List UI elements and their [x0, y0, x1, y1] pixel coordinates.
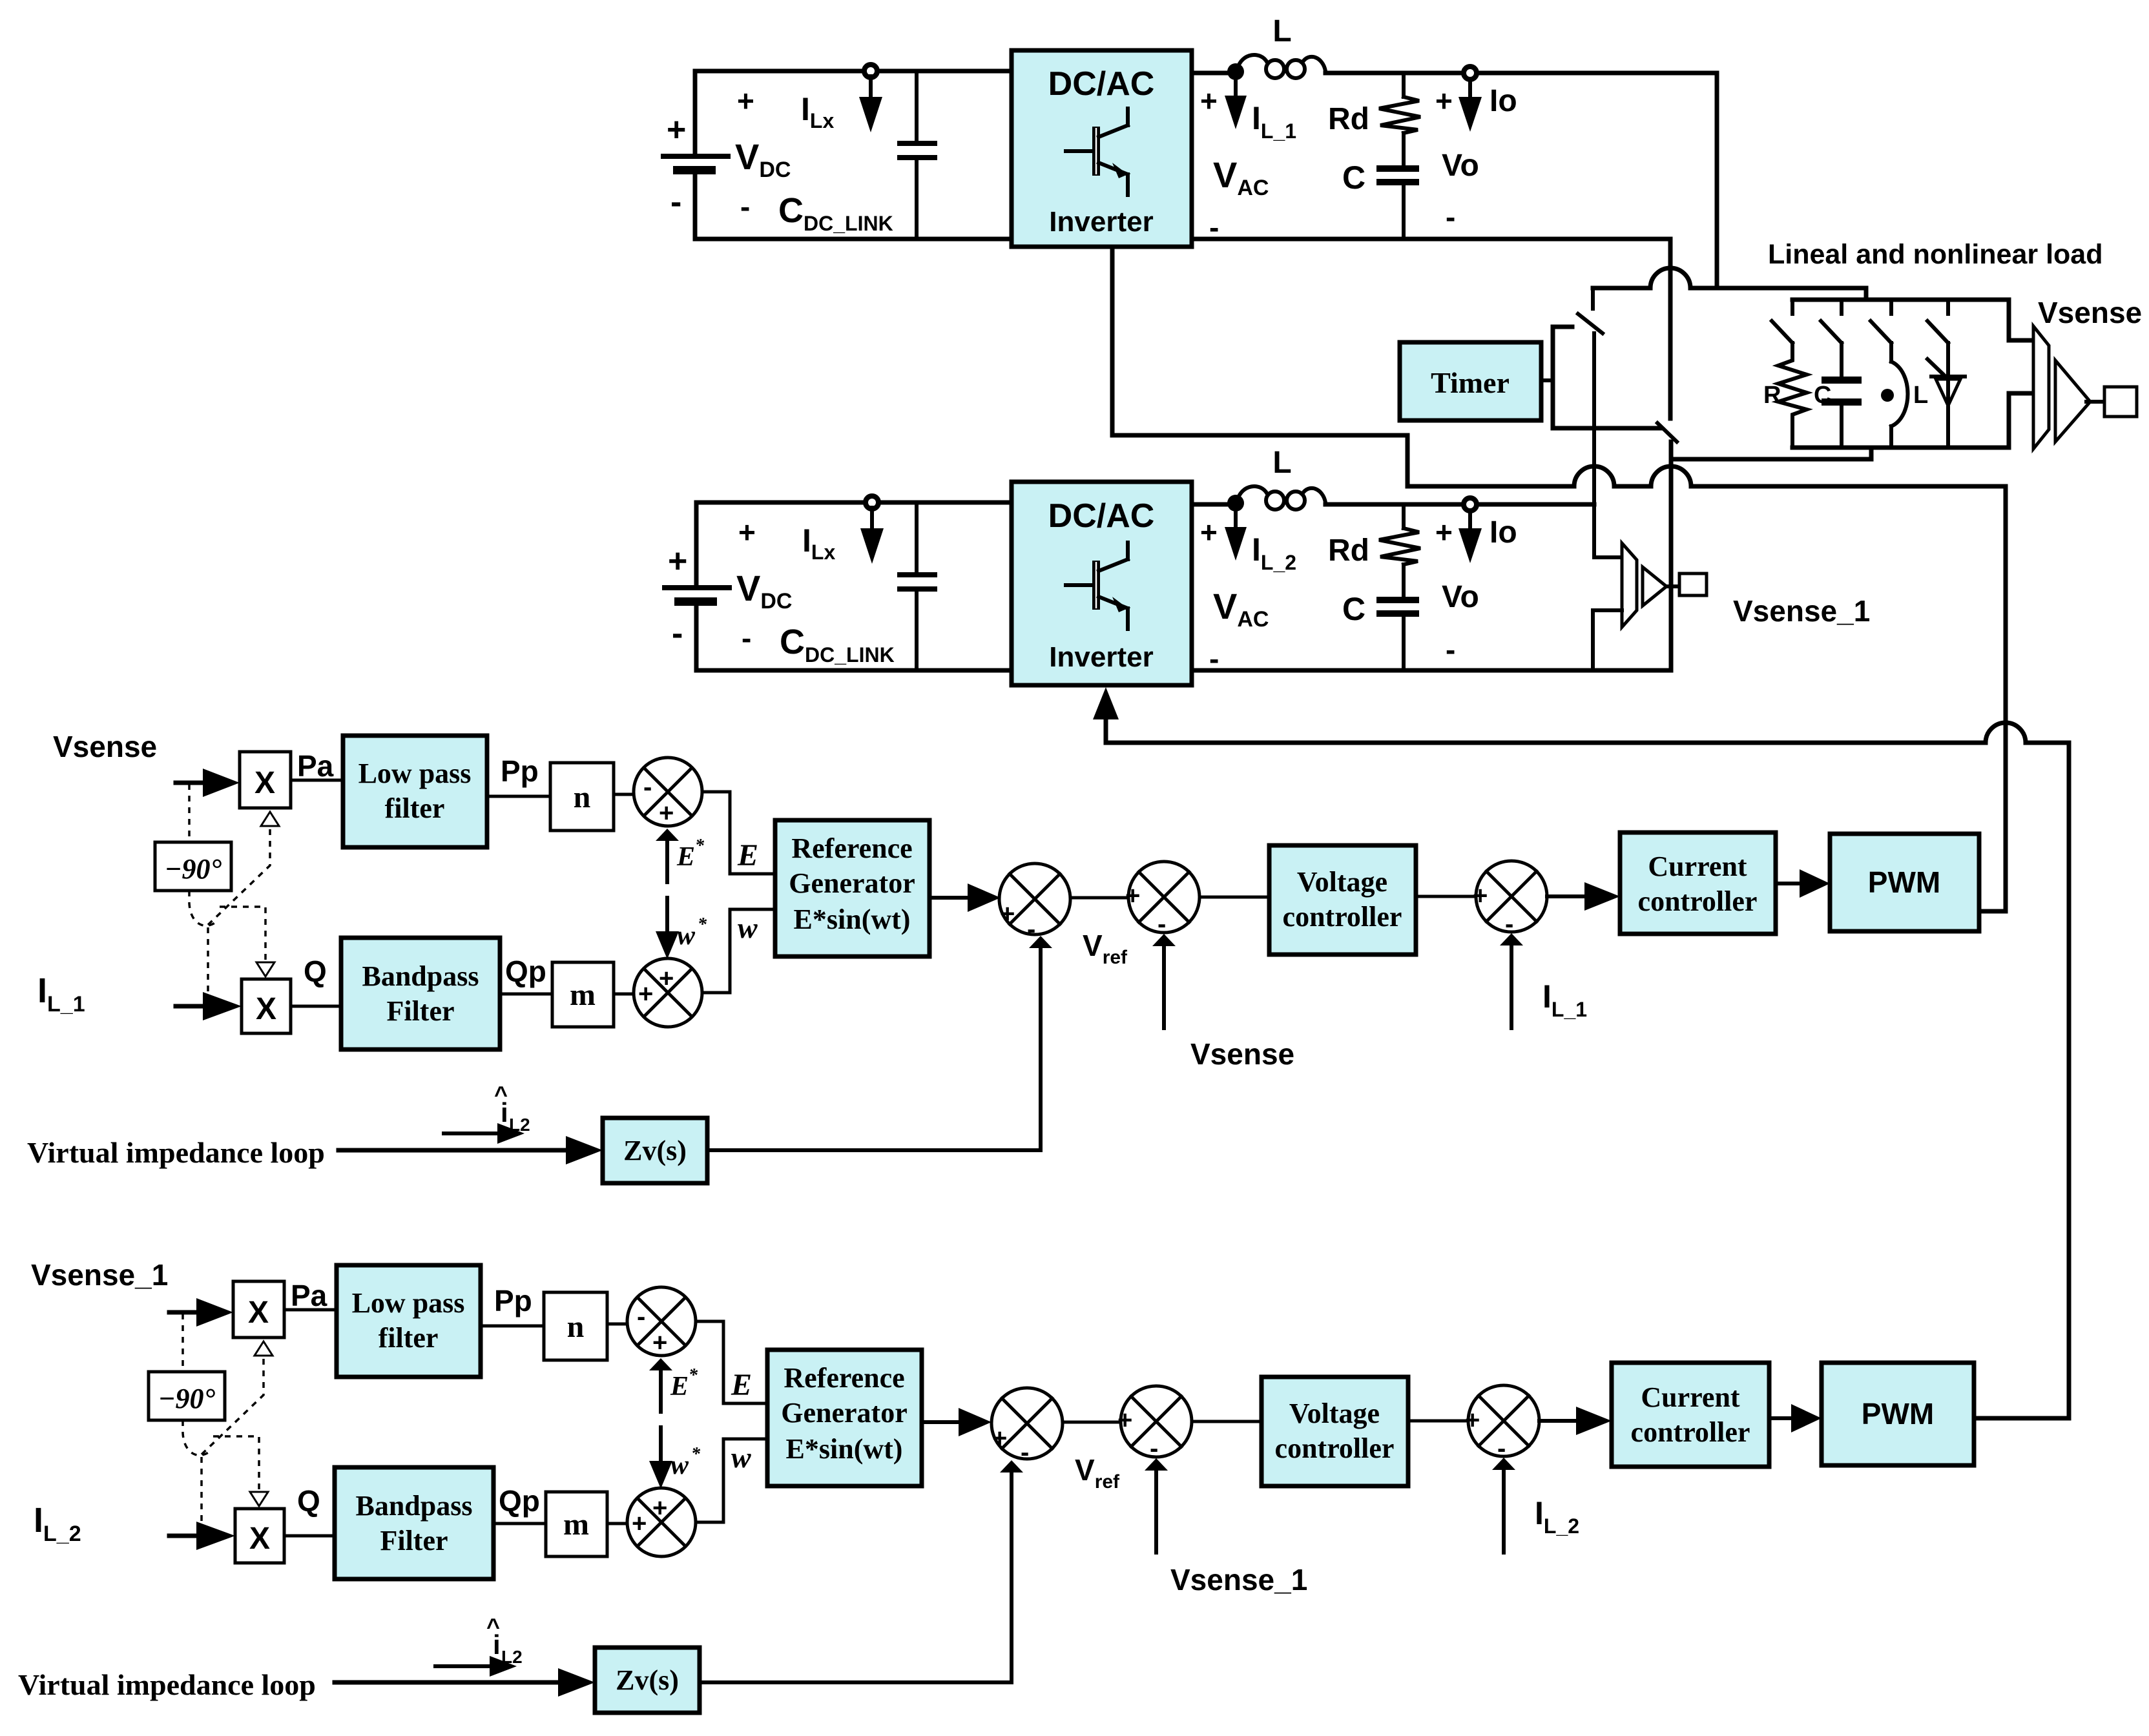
- svg-text:Bandpass: Bandpass: [362, 960, 479, 992]
- svg-text:-: -: [1497, 1434, 1506, 1463]
- terminal Vsense: [2104, 387, 2137, 417]
- wire BPF2 to m2: [493, 1522, 546, 1525]
- wire Zv2 to A2 riser: [700, 1680, 1012, 1684]
- svg-text:Vsense: Vsense: [2038, 296, 2142, 329]
- svg-text:Io: Io: [1490, 515, 1517, 550]
- svg-text:Bandpass: Bandpass: [355, 1490, 472, 1522]
- svg-text:PWM: PWM: [1868, 865, 1940, 899]
- wire left rail battery1: [693, 71, 698, 156]
- svg-text:+: +: [652, 1494, 667, 1522]
- wire load bottom feed: [1671, 448, 1871, 459]
- dashed -90 output curve: [189, 891, 216, 925]
- feedback arrow Vref2 from Zv2: [1010, 1471, 1013, 1682]
- current arrow ILx1: [869, 76, 873, 98]
- svg-text:+: +: [1200, 84, 1218, 118]
- wire probe2 gate stub: [1594, 555, 1622, 559]
- wire PWM2 output: [1974, 1416, 2069, 1421]
- signal arrow IL2 into X2b: [169, 1534, 199, 1538]
- reference arrow w* 2: [659, 1427, 663, 1462]
- svg-text:Vsense: Vsense: [1190, 1037, 1294, 1071]
- gain block n 2: [544, 1292, 607, 1360]
- switch S1 blade: [1578, 314, 1603, 333]
- summing junction E sum1b: [627, 1287, 696, 1357]
- svg-text:−90°: −90°: [165, 853, 222, 885]
- signal arrow Vsense_1 into X1b: [169, 1310, 199, 1315]
- svg-text:-: -: [1158, 910, 1166, 938]
- svg-text:-: -: [1505, 910, 1513, 938]
- wire BPF to m: [500, 993, 552, 996]
- svg-text:-: -: [740, 190, 750, 223]
- wire left rail battery2 lower: [694, 601, 699, 670]
- gain block m: [552, 962, 614, 1027]
- svg-text:Reference: Reference: [784, 1362, 904, 1394]
- wire X1 to LPF: [291, 779, 343, 782]
- small arrow iL2 1: [444, 1131, 499, 1135]
- dashed horizontal to X2: [220, 907, 265, 962]
- wire load top feed: [1593, 268, 1866, 300]
- signal arrow IL1 into X2: [176, 1004, 205, 1009]
- feedback arrow Vref1 from Zv: [1039, 947, 1043, 1150]
- svg-text:DC/AC: DC/AC: [1048, 497, 1155, 535]
- current arrow I_L_1: [1234, 77, 1238, 97]
- damping branch Rd2 C2: [1376, 504, 1420, 670]
- wire A1 to B1: [1070, 896, 1128, 900]
- svg-text:Virtual impedance loop: Virtual impedance loop: [27, 1136, 325, 1169]
- wire LPF2 to n2: [481, 1325, 544, 1328]
- wire m to sum2: [614, 993, 634, 996]
- wire left rail battery1 lower: [693, 169, 698, 239]
- switch S1 stub: [1591, 288, 1595, 309]
- wire sum2b to RG2 (w): [696, 1439, 767, 1522]
- signal arrow RG1 to sumA: [929, 896, 969, 900]
- load branch thyristor switch: [1927, 300, 1948, 343]
- block Zv(s) 1: [603, 1118, 707, 1183]
- voltage probe Vsense_1 body: [1622, 543, 1637, 627]
- svg-text:Pa: Pa: [291, 1279, 327, 1312]
- wire inverter1 bottom rail drop to switch: [1668, 239, 1673, 418]
- svg-text:Pa: Pa: [297, 749, 334, 783]
- thyristor load: [1927, 343, 1965, 448]
- wire top rail inverter1 DC side: [695, 69, 1012, 74]
- terminal Vsense_1: [1679, 573, 1707, 595]
- svg-text:Voltage: Voltage: [1289, 1398, 1380, 1429]
- svg-text:-: -: [670, 183, 681, 221]
- svg-text:-: -: [1446, 633, 1455, 666]
- svg-text:+: +: [1473, 882, 1488, 910]
- signal arrow CC2 to PWM2: [1769, 1416, 1792, 1420]
- wire gate line inverter2 horizontal: [1106, 723, 2069, 743]
- current arrow Io2: [1468, 510, 1472, 530]
- block Reference Generator 2: [767, 1350, 922, 1486]
- svg-text:Vsense_1: Vsense_1: [31, 1258, 168, 1292]
- svg-text:+: +: [992, 1424, 1007, 1452]
- signal arrow C2 to CC2: [1539, 1419, 1577, 1423]
- svg-text:Filter: Filter: [386, 995, 454, 1027]
- svg-text:-: -: [1021, 1438, 1029, 1467]
- block Reference Generator 1: [775, 820, 929, 956]
- svg-text:+: +: [1125, 882, 1140, 910]
- svg-text:Lineal and nonlinear load: Lineal and nonlinear load: [1768, 239, 2102, 270]
- block Current controller 1: [1620, 832, 1776, 934]
- svg-text:filter: filter: [379, 1322, 439, 1354]
- svg-text:*: *: [698, 914, 707, 935]
- svg-text:-: -: [742, 621, 751, 655]
- dashed drop to IL2 line: [200, 1457, 203, 1532]
- svg-text:+: +: [738, 515, 756, 549]
- svg-text:Inverter: Inverter: [1049, 641, 1153, 673]
- svg-text:-: -: [1446, 200, 1455, 234]
- svg-text:^: ^: [494, 1081, 508, 1108]
- svg-text:Rd: Rd: [1328, 533, 1369, 568]
- svg-text:Qp: Qp: [505, 955, 546, 988]
- svg-text:X: X: [256, 992, 276, 1026]
- svg-text:C: C: [1342, 591, 1365, 627]
- svg-text:E: E: [670, 1372, 689, 1401]
- wire bottom rail inverter2 AC side: [1192, 668, 1671, 673]
- svg-text:Virtual impedance loop: Virtual impedance loop: [18, 1668, 316, 1701]
- transistor IGBT symbol inverter1: [1066, 108, 1128, 195]
- CTRL1: [18, 1258, 1974, 1713]
- battery V_DC (source 2): [662, 585, 732, 606]
- wire Timer output: [1541, 378, 1553, 382]
- signal arrow RG2 to sumA2: [922, 1420, 960, 1424]
- wire X2 to BPF: [291, 1005, 341, 1008]
- svg-text:E: E: [731, 1368, 752, 1402]
- multiplier X2b: [235, 1509, 284, 1563]
- switch S2 blade: [1657, 423, 1677, 442]
- inductor coil load: [1891, 343, 1908, 448]
- node dot Io1: [1464, 67, 1477, 79]
- Timer block: [1400, 342, 1541, 420]
- reference arrow E*: [665, 840, 669, 882]
- wire sense tap vertical: [1592, 333, 1596, 557]
- svg-text:C: C: [1814, 382, 1831, 409]
- wire left rail battery2: [694, 502, 699, 587]
- gate drive arrow into inverter2: [1104, 718, 1108, 743]
- wire inverter2 AC output: [1192, 502, 1238, 507]
- wire neutral drop lower: [1669, 442, 1674, 670]
- svg-text:+: +: [667, 111, 686, 149]
- svg-text:Pp: Pp: [501, 754, 539, 788]
- load branch C switch: [1821, 300, 1842, 343]
- svg-text:Vsense: Vsense: [53, 730, 157, 763]
- block Low pass filter 2: [337, 1265, 481, 1377]
- reference arrow E* 2: [659, 1369, 663, 1412]
- svg-text:Reference: Reference: [791, 832, 912, 864]
- svg-text:-: -: [643, 773, 652, 801]
- load branch L1 switch: [1871, 300, 1891, 343]
- wire L1 to Rd branch: [1325, 71, 1717, 76]
- svg-text:PWM: PWM: [1862, 1397, 1934, 1431]
- CIRCUIT1: [662, 446, 1671, 743]
- dashed tap Vsense_1 to -90b: [182, 1314, 184, 1372]
- svg-text:controller: controller: [1631, 1416, 1750, 1448]
- wire probe Vsense_1 output: [1666, 584, 1679, 588]
- node dot ILx1: [864, 65, 877, 77]
- block Current controller 2: [1612, 1363, 1769, 1467]
- svg-text:Q: Q: [297, 1484, 320, 1518]
- inductor L 2: [1238, 486, 1325, 510]
- dashed tap Vsense to -90: [188, 784, 191, 842]
- svg-text:+: +: [1117, 1406, 1132, 1434]
- signal line into Zv2: [335, 1680, 561, 1685]
- svg-text:w: w: [731, 1441, 751, 1474]
- capacitor C load: [1822, 343, 1862, 448]
- svg-text:X: X: [254, 766, 275, 800]
- wire sum1 to RG (E): [702, 792, 775, 874]
- svg-text:Voltage: Voltage: [1297, 866, 1387, 898]
- phase shift block -90 deg 2: [149, 1372, 225, 1420]
- svg-text:C: C: [1342, 160, 1365, 196]
- inverter block DC/AC 2: [1012, 482, 1192, 685]
- svg-text:+: +: [632, 1509, 647, 1538]
- wire gate line inverter1 horizontal: [1407, 466, 2006, 486]
- svg-text:+: +: [1435, 84, 1453, 118]
- svg-text:Vo: Vo: [1442, 149, 1479, 183]
- svg-text:*: *: [689, 1365, 698, 1385]
- svg-text:Q: Q: [304, 955, 327, 988]
- feedback arrow Vsense_1 into B2: [1154, 1469, 1158, 1553]
- svg-text:+: +: [652, 1328, 667, 1357]
- svg-text:+: +: [638, 980, 653, 1008]
- svg-text:R: R: [1763, 382, 1781, 409]
- summing junction C1: [1473, 861, 1547, 938]
- wire X1b to LPF2: [284, 1308, 337, 1312]
- node dot ILx2: [866, 496, 878, 509]
- node dot IL2: [1227, 495, 1244, 512]
- block Voltage controller 1: [1269, 845, 1416, 955]
- CIRCUIT2: [1106, 239, 2142, 1418]
- svg-text:m: m: [563, 1507, 589, 1542]
- block PWM 1: [1830, 834, 1979, 931]
- svg-text:+: +: [1465, 1406, 1480, 1434]
- switch S1 post: [1553, 327, 1572, 428]
- dashed -90b output curve: [183, 1420, 209, 1455]
- reference arrow w*: [665, 898, 669, 933]
- svg-text:L: L: [1913, 382, 1928, 409]
- wire n2 to sum1b: [607, 1323, 627, 1326]
- wire m2 to sum2b: [607, 1522, 627, 1525]
- battery V_DC (source 1): [661, 154, 731, 174]
- load branch R switch: [1772, 300, 1792, 343]
- wire top rail inverter2 DC side: [696, 501, 1012, 505]
- svg-text:L: L: [1272, 446, 1291, 480]
- svg-text:-: -: [637, 1303, 645, 1331]
- svg-text:Generator: Generator: [789, 867, 915, 899]
- svg-text:Zv(s): Zv(s): [623, 1135, 687, 1166]
- svg-text:w: w: [670, 1451, 689, 1480]
- wire X2b to BPF2: [284, 1534, 335, 1538]
- summing junction w sum2: [634, 958, 702, 1027]
- svg-text:n: n: [567, 1310, 585, 1344]
- svg-text:Pp: Pp: [494, 1284, 532, 1317]
- svg-text:L: L: [1272, 14, 1291, 48]
- svg-text:-: -: [1150, 1434, 1158, 1463]
- feedback arrow IL1 into C1: [1510, 944, 1513, 1028]
- signal arrow Vsense into X1: [176, 781, 205, 785]
- svg-text:+: +: [668, 542, 687, 580]
- wire VC1 to C1: [1416, 895, 1476, 898]
- node dot IL1: [1227, 63, 1244, 80]
- svg-text:Vsense_1: Vsense_1: [1170, 1563, 1307, 1596]
- svg-text:Current: Current: [1648, 851, 1747, 882]
- wire B2 to VC2: [1192, 1420, 1261, 1423]
- wire bottom rail inverter1 DC side: [695, 237, 1012, 242]
- summing junction A2: [991, 1388, 1063, 1467]
- svg-text:Rd: Rd: [1328, 102, 1369, 136]
- wire gate line inverter1 vertical to PWM: [2004, 486, 2008, 911]
- wire Zv1 to A1 riser: [707, 1148, 1041, 1152]
- svg-text:Filter: Filter: [380, 1525, 448, 1556]
- capacitor C_DC_LINK 2: [897, 502, 937, 670]
- signal arrow CC1 to PWM1: [1776, 882, 1801, 885]
- svg-text:Qp: Qp: [499, 1484, 540, 1518]
- svg-text:m: m: [570, 978, 596, 1012]
- svg-text:Io: Io: [1490, 84, 1517, 118]
- wire B1 to VC1: [1199, 896, 1269, 899]
- summing junction E sum1: [634, 758, 702, 827]
- svg-text:*: *: [695, 836, 705, 856]
- svg-text:Vsense_1: Vsense_1: [1733, 594, 1870, 628]
- wire inverter1 AC output: [1192, 71, 1238, 76]
- svg-text:E: E: [737, 838, 758, 873]
- svg-text:Vo: Vo: [1442, 580, 1479, 614]
- node dot coil load: [1881, 389, 1894, 402]
- signal line into Zv1: [338, 1148, 568, 1153]
- voltage probe Vsense_1 triangle: [1643, 567, 1666, 606]
- svg-text:+: +: [1000, 900, 1015, 928]
- capacitor C_DC_LINK 1: [897, 71, 937, 239]
- svg-text:Inverter: Inverter: [1049, 206, 1153, 238]
- wire LPF to n: [487, 795, 550, 798]
- svg-text:filter: filter: [385, 792, 445, 824]
- svg-text:-: -: [672, 615, 683, 652]
- current arrow ILx2: [870, 508, 874, 530]
- svg-text:+: +: [1435, 515, 1453, 549]
- svg-text:Low pass: Low pass: [358, 758, 472, 789]
- feedback arrow Vsense into B1: [1162, 945, 1166, 1028]
- summing junction A1: [999, 863, 1070, 944]
- signal arrow C1 to CC1: [1547, 894, 1586, 898]
- svg-text:E: E: [676, 842, 695, 872]
- svg-text:^: ^: [486, 1613, 500, 1640]
- svg-text:Current: Current: [1641, 1381, 1740, 1413]
- voltage probe Vsense triangle: [2055, 360, 2090, 442]
- voltage probe Vsense body: [2033, 326, 2049, 449]
- wire L2 to junction vertical: [1325, 502, 1594, 507]
- svg-text:+: +: [737, 84, 754, 118]
- damping branch Rd1 C1: [1376, 73, 1420, 239]
- svg-text:+: +: [659, 799, 674, 827]
- inductor L 1: [1238, 55, 1325, 78]
- svg-text:*: *: [691, 1444, 701, 1464]
- svg-text:controller: controller: [1275, 1432, 1395, 1464]
- svg-text:w: w: [677, 921, 696, 951]
- summing junction B1: [1125, 862, 1199, 938]
- wire bottom rail inverter2 DC side: [696, 668, 1012, 673]
- svg-text:DC/AC: DC/AC: [1048, 65, 1155, 103]
- svg-text:Low pass: Low pass: [352, 1287, 465, 1319]
- wire bottom rail inverter1 AC side: [1192, 237, 1670, 242]
- summing junction B2: [1117, 1386, 1192, 1463]
- wire n to sum1: [614, 793, 634, 796]
- transistor IGBT symbol inverter2: [1066, 542, 1128, 629]
- svg-text:−90°: −90°: [158, 1383, 216, 1414]
- block Voltage controller 2: [1261, 1377, 1408, 1486]
- svg-text:X: X: [249, 1522, 270, 1556]
- wire inverter1 output drop to load feed: [1715, 73, 1719, 288]
- block Bandpass Filter: [341, 938, 500, 1049]
- wire VC2 to C2: [1408, 1420, 1468, 1423]
- svg-text:X: X: [248, 1296, 269, 1330]
- block Bandpass Filter 2: [335, 1467, 493, 1579]
- LOADAREA: [27, 730, 1979, 1183]
- wire PWM1 output: [1979, 909, 2006, 914]
- wire probe Vsense output: [2086, 400, 2104, 404]
- summing junction w sum2b: [627, 1488, 696, 1556]
- svg-text:-: -: [1027, 915, 1035, 944]
- multiplier X1b: [233, 1281, 284, 1338]
- inverter block DC/AC 1: [1012, 50, 1192, 247]
- svg-text:E*sin(wt): E*sin(wt): [786, 1433, 903, 1465]
- small arrow iL2 2: [435, 1664, 491, 1668]
- phase shift block -90 deg: [155, 842, 231, 891]
- svg-text:+: +: [659, 964, 674, 993]
- current arrow I_L_2: [1234, 509, 1238, 528]
- svg-text:Timer: Timer: [1431, 366, 1510, 399]
- dashed drop to IL1 line: [207, 927, 209, 1002]
- multiplier X1: [240, 752, 291, 808]
- wire switch link horizontal: [1553, 426, 1660, 431]
- node dot Io2: [1464, 498, 1477, 511]
- dashed diagonal to X1b: [202, 1356, 264, 1454]
- dashed horizontal to X2b: [213, 1436, 259, 1492]
- wire gate line inverter1 drop: [1112, 247, 1407, 486]
- wire sum2 to RG (w): [702, 909, 775, 993]
- svg-text:controller: controller: [1283, 901, 1402, 933]
- feedback arrow IL2 into C2: [1502, 1469, 1506, 1553]
- svg-text:E*sin(wt): E*sin(wt): [794, 904, 911, 935]
- block Zv(s) 2: [595, 1648, 700, 1713]
- svg-text:Generator: Generator: [781, 1397, 907, 1429]
- resistor R load: [1778, 343, 1807, 448]
- load box outline: [1792, 300, 2031, 448]
- summing junction C2: [1465, 1385, 1539, 1463]
- gain block m 2: [546, 1492, 607, 1556]
- svg-text:+: +: [1200, 515, 1218, 549]
- svg-text:controller: controller: [1638, 885, 1758, 917]
- svg-text:n: n: [574, 780, 591, 814]
- wire probe2 lower stub: [1593, 610, 1622, 670]
- gain block n: [550, 763, 614, 831]
- svg-text:w: w: [738, 911, 758, 944]
- dashed diagonal to X1: [208, 826, 270, 925]
- wire A2 to B2: [1063, 1421, 1121, 1424]
- multiplier X2: [242, 979, 291, 1033]
- wire sum1b to RG2 (E): [696, 1321, 767, 1403]
- svg-text:Zv(s): Zv(s): [616, 1664, 679, 1696]
- block PWM 2: [1822, 1363, 1974, 1465]
- current arrow Io1: [1468, 79, 1472, 98]
- block Low pass filter: [343, 736, 487, 847]
- wire gate line inverter2 vertical riser: [2067, 743, 2071, 1418]
